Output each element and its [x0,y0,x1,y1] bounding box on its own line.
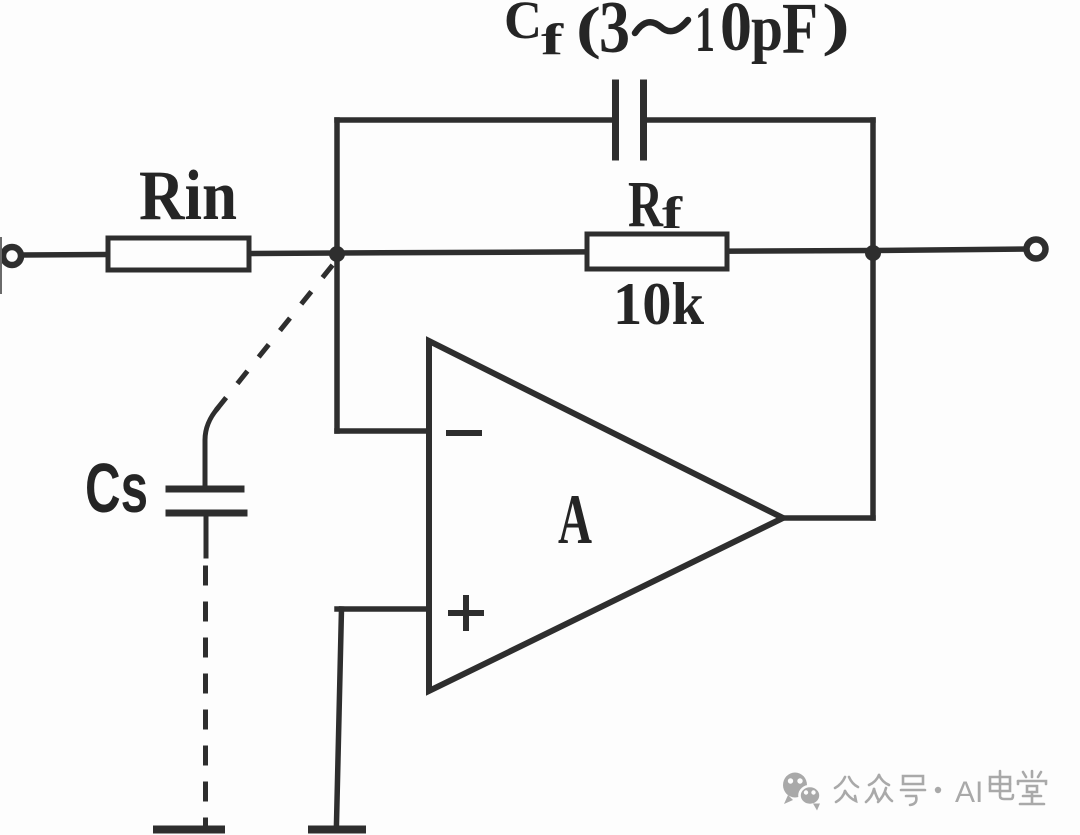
svg-text:Cs: Cs [85,449,148,527]
svg-text:f: f [541,15,565,64]
svg-text:): ) [822,0,850,57]
svg-text:Rin: Rin [139,157,237,235]
svg-text:(: ( [576,0,601,60]
svg-text:1: 1 [695,0,715,66]
svg-text:p: p [751,0,783,65]
svg-text:3: 3 [599,0,630,69]
svg-text:10k: 10k [613,271,705,337]
svg-text:C: C [504,0,542,50]
svg-text:F: F [782,0,818,69]
svg-text:0: 0 [720,0,752,66]
svg-text:f: f [662,187,683,238]
svg-text:AI: AI [955,776,983,809]
svg-text:A: A [558,481,592,559]
svg-text:R: R [628,168,664,241]
